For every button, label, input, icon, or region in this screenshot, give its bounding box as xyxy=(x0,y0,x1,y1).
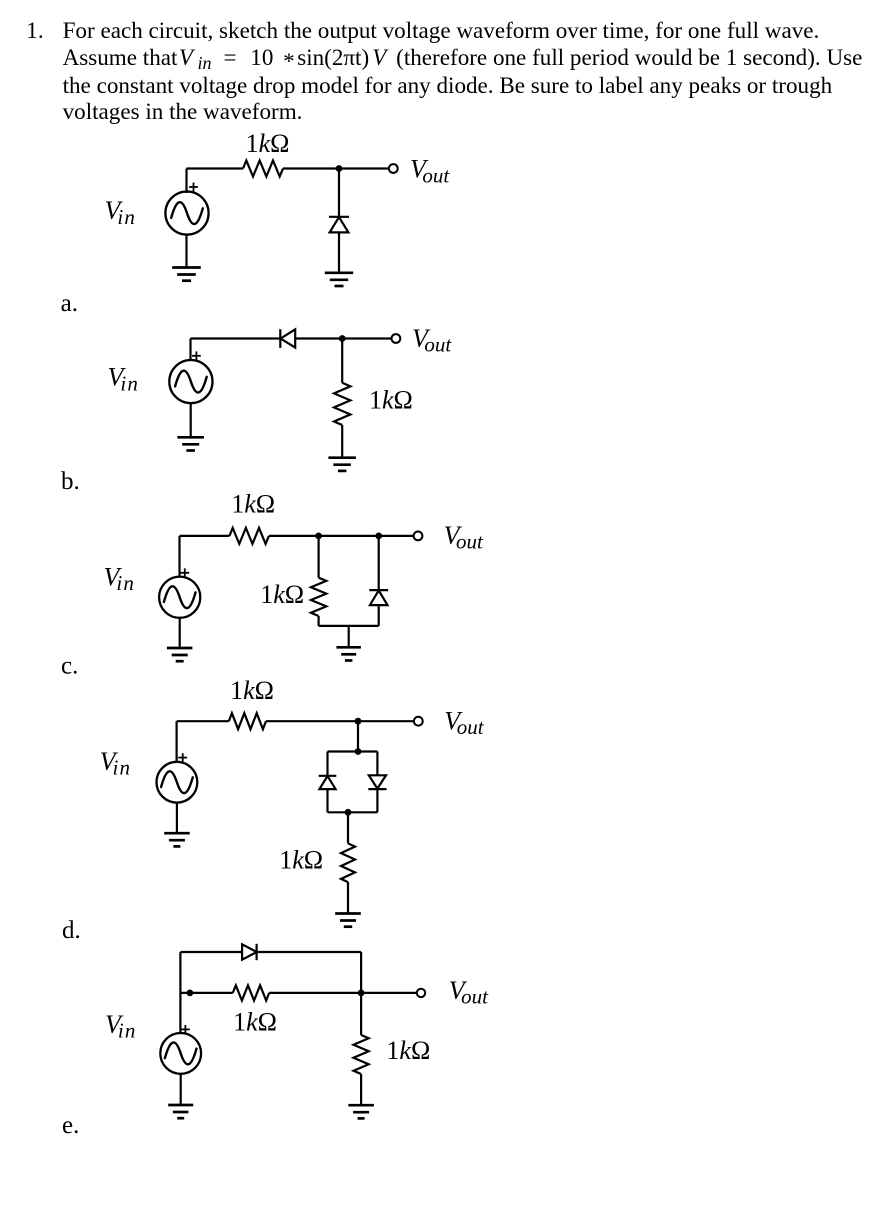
svg-text:Vin: Vin xyxy=(104,562,136,595)
svg-text:1kΩ: 1kΩ xyxy=(386,1036,430,1065)
svg-text:1kΩ: 1kΩ xyxy=(260,580,304,609)
svg-text:Vout: Vout xyxy=(412,324,452,357)
svg-text:Vout: Vout xyxy=(444,521,484,554)
svg-text:c.: c. xyxy=(61,653,78,680)
svg-text:Vin: Vin xyxy=(108,363,140,396)
svg-text:Vin: Vin xyxy=(105,196,137,229)
svg-text:Vin: Vin xyxy=(100,747,132,780)
svg-text:d.: d. xyxy=(62,917,81,944)
svg-text:b.: b. xyxy=(61,468,80,495)
svg-text:1kΩ: 1kΩ xyxy=(246,129,290,158)
svg-text:a.: a. xyxy=(61,290,78,317)
svg-text:1kΩ: 1kΩ xyxy=(233,1007,277,1036)
svg-text:Vout: Vout xyxy=(444,706,484,739)
svg-text:1kΩ: 1kΩ xyxy=(230,676,274,705)
svg-text:Vin: Vin xyxy=(105,1010,137,1043)
svg-text:1kΩ: 1kΩ xyxy=(279,845,323,874)
svg-text:Vout: Vout xyxy=(449,976,489,1009)
svg-text:e.: e. xyxy=(62,1112,79,1139)
svg-text:1kΩ: 1kΩ xyxy=(369,385,413,414)
svg-text:1kΩ: 1kΩ xyxy=(231,489,275,518)
svg-text:Vout: Vout xyxy=(410,155,450,188)
